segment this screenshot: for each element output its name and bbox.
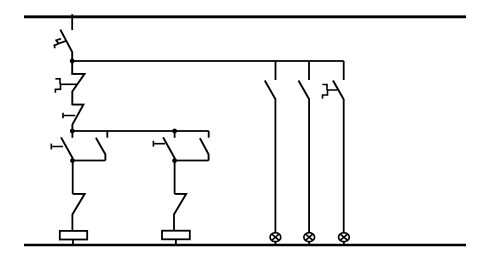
wire stub from busbar: [71, 14, 73, 30]
junction node B: [70, 129, 75, 134]
lamp HL3: [339, 233, 350, 242]
breaker S1 blade: [61, 137, 73, 160]
wire branch 1 drop: [72, 161, 74, 194]
wire fuse FU1 to neutral bar: [72, 240, 74, 246]
switch S8 blade: [299, 81, 309, 99]
wire branch 2 drop: [174, 161, 176, 194]
lamp HL1: [270, 233, 281, 242]
switch QF1 (closed blade): [72, 61, 84, 105]
wire lamp 1 to neutral bar: [274, 242, 276, 245]
switch S7 blade: [265, 81, 275, 99]
busbar top: [24, 15, 466, 18]
wire drop 2 stub: [308, 61, 310, 80]
trip tick on S4: [153, 141, 165, 147]
trip tick on S1: [51, 144, 63, 150]
junction node E: [172, 129, 177, 134]
breaker S4 blade: [163, 137, 175, 160]
wire stub branch 2: [174, 131, 176, 138]
wire to fuse FU1: [71, 215, 73, 232]
wire feeder bus: [72, 60, 344, 62]
wire to fuse FU2: [173, 215, 175, 231]
junction node D: [172, 158, 177, 163]
release hook on S9: [322, 85, 337, 99]
switch S6 (closed blade): [174, 194, 186, 215]
wire stub branch 1: [71, 131, 73, 138]
wire bypass 2 return: [175, 160, 209, 162]
junction node C: [70, 158, 75, 163]
junction node A: [70, 59, 75, 64]
release hook on QF1: [55, 79, 77, 93]
trip tick on QF2: [63, 113, 75, 119]
wire bypass 1 top tick: [106, 131, 108, 138]
wire lamp 2 to neutral bar: [308, 242, 310, 245]
lamp HL2: [304, 233, 315, 242]
bypass switch S5 blade: [200, 138, 209, 160]
disconnector QS blade: [60, 30, 72, 61]
bypass switch S2 blade: [96, 138, 106, 161]
release hook on QS: [54, 39, 67, 49]
switch S9 blade: [333, 81, 344, 100]
switch QF2 (closed blade): [72, 105, 83, 131]
wire distribution line: [72, 130, 209, 132]
fuse FU2: [162, 231, 190, 240]
wire drop 3: [343, 99, 345, 233]
wire drop 1: [274, 99, 276, 233]
fuse FU1: [60, 231, 87, 240]
wire lamp 3 to neutral bar: [343, 242, 345, 245]
wire bypass 2 top tick: [208, 131, 210, 138]
wire drop 2: [308, 99, 310, 233]
wire drop 1 stub: [275, 61, 277, 80]
busbar bottom (neutral bar): [24, 244, 466, 246]
wire bypass 1 return: [73, 160, 106, 162]
wire drop 3 corner: [343, 61, 345, 80]
switch S3 (closed blade): [72, 194, 85, 215]
wire fuse FU2 to neutral bar: [175, 239, 177, 245]
